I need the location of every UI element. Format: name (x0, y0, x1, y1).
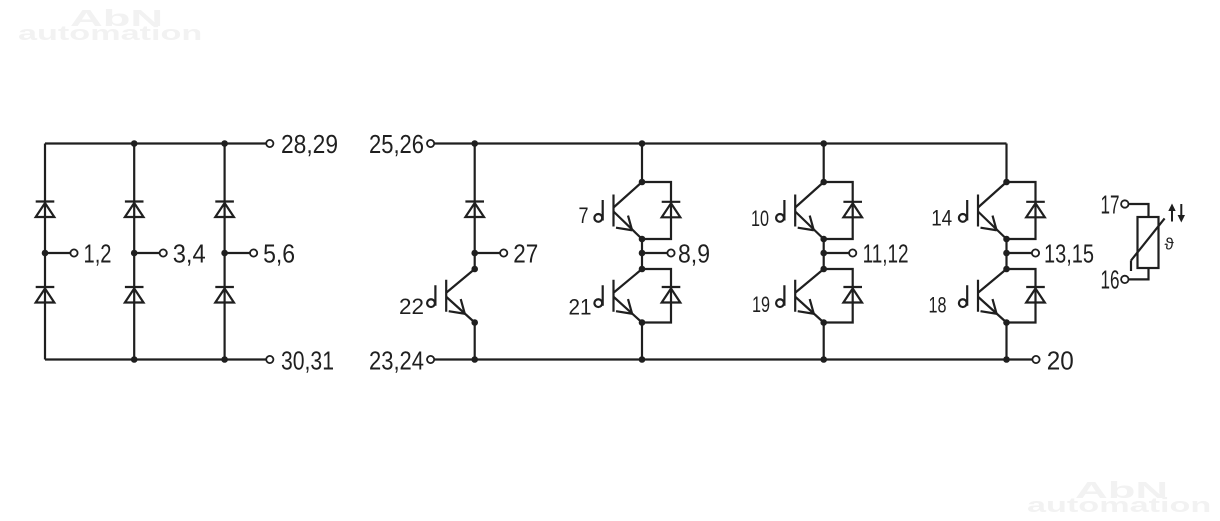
label terminal 3,4 (173, 239, 206, 269)
svg-text:17: 17 (1101, 190, 1120, 220)
node AC phase 5,6 (221, 250, 228, 257)
wire to terminal 3,4 (134, 252, 159, 254)
node rectifier bottom rail / leg 2 (131, 356, 138, 363)
node output 11,12 (820, 250, 827, 257)
IGBT 19 gate lead (776, 285, 784, 307)
wire rectifier DC+ top rail (45, 142, 266, 144)
wire inverter DC+ top rail (434, 142, 1007, 144)
svg-text:22: 22 (399, 294, 424, 319)
wire chopper lower leg (474, 323, 476, 360)
label terminal 25,26 (369, 129, 424, 159)
label IGBT 19 (752, 292, 770, 317)
label terminal 30,31 (281, 346, 334, 376)
wire half-bridge 3 lower leg (1005, 323, 1007, 360)
IGBT 7 collector lead (614, 182, 643, 208)
terminal 11,12 (849, 249, 856, 256)
node IGBT 21 emitter (639, 319, 646, 326)
terminal 8,9 (667, 249, 674, 256)
IGBT 19 gate bar (794, 280, 796, 312)
IGBT 22 gate bar (445, 280, 447, 312)
terminal 16 (1121, 276, 1128, 283)
thermistor variation diagonal (1131, 218, 1165, 271)
node IGBT 10 collector (820, 179, 827, 186)
IGBT 14 emitter lead with arrow (978, 212, 1007, 240)
node half-bridge 2 / bottom rail (820, 356, 827, 363)
svg-text:18: 18 (929, 293, 947, 318)
node IGBT 7 emitter (639, 236, 646, 243)
IGBT 10 emitter lead with arrow (795, 212, 824, 240)
terminal 20 (DC-) (1032, 356, 1039, 363)
IGBT 14 gate lead (959, 200, 967, 222)
watermark logo (top-left) (70, 5, 163, 32)
IGBT 19 emitter lead with arrow (795, 297, 824, 323)
svg-text:3,4: 3,4 (173, 239, 206, 269)
label IGBT 14 (931, 206, 952, 231)
watermark logo (bottom-right) (1075, 477, 1168, 504)
IGBT 21 collector lead (614, 269, 643, 293)
svg-text:27: 27 (513, 239, 538, 269)
node IGBT 19 emitter (820, 319, 827, 326)
wire rectifier leg 1 (44, 144, 46, 360)
node AC phase 3,4 (131, 250, 138, 257)
IGBT 18 gate bar (977, 280, 979, 312)
wire to terminal 13,15 (1007, 252, 1032, 254)
node AC phase 1,2 (42, 250, 49, 257)
svg-text:13,15: 13,15 (1044, 239, 1094, 269)
wire to terminal 1,2 (45, 252, 70, 254)
IGBT 22 gate lead (427, 285, 435, 307)
label IGBT 18 (929, 293, 947, 318)
freewheel diode of IGBT 14 (1007, 182, 1045, 239)
thermistor theta symbol (1165, 235, 1175, 254)
label terminal 20 (1047, 346, 1074, 376)
wire to terminal 11,12 (824, 252, 849, 254)
svg-text:28,29: 28,29 (281, 129, 338, 159)
wire rectifier leg 3 (224, 144, 226, 360)
svg-text:16: 16 (1101, 265, 1120, 295)
svg-text:23,24: 23,24 (369, 346, 424, 376)
svg-text:7: 7 (579, 203, 589, 228)
rectifier diode leg 1 lower (36, 287, 55, 303)
node chopper IGBT emitter (471, 319, 478, 326)
IGBT 10 gate lead (776, 200, 784, 222)
svg-text:10: 10 (751, 206, 769, 231)
IGBT 22 collector lead (446, 269, 475, 293)
node half-bridge 1 / top rail (639, 140, 646, 147)
node IGBT 18 collector (1003, 266, 1010, 273)
freewheel diode of IGBT 7 (642, 182, 680, 239)
freewheel diode of IGBT 19 (824, 269, 862, 323)
node rectifier top rail / leg 3 (221, 140, 228, 147)
IGBT 22 emitter lead with arrow (446, 297, 475, 323)
node half-bridge 3 / bottom rail (1003, 356, 1010, 363)
wire half-bridge 2 upper leg (823, 144, 825, 183)
node 27 (471, 250, 478, 257)
IGBT 21 emitter lead with arrow (614, 297, 643, 323)
IGBT 10 gate bar (794, 195, 796, 227)
label IGBT 22 (399, 294, 424, 319)
label terminal 28,29 (281, 129, 338, 159)
rectifier diode leg 2 lower (125, 287, 144, 303)
terminal 25,26 (DC+) (427, 140, 434, 147)
wire rectifier leg 2 (133, 144, 135, 360)
IGBT 10 collector lead (795, 182, 824, 208)
label terminal 5,6 (263, 239, 295, 269)
IGBT 14 collector lead (978, 182, 1007, 208)
wire to terminal 27 (475, 252, 500, 254)
freewheel diode of IGBT 18 (1007, 269, 1045, 323)
node rectifier bottom rail / leg 3 (221, 356, 228, 363)
terminal 5,6 (250, 249, 257, 256)
label terminal 11,12 (863, 239, 909, 269)
svg-text:ϑ: ϑ (1165, 235, 1175, 254)
label terminal 13,15 (1044, 239, 1094, 269)
freewheel diode of IGBT 21 (642, 269, 680, 323)
node IGBT 10 emitter (820, 236, 827, 243)
svg-text:20: 20 (1047, 346, 1074, 376)
node IGBT 19 collector (820, 266, 827, 273)
terminal 28,29 (DC+) (266, 140, 273, 147)
IGBT 14 gate bar (977, 195, 979, 227)
svg-text:19: 19 (752, 292, 770, 317)
terminal 3,4 (160, 249, 167, 256)
IGBT 7 gate bar (612, 195, 614, 227)
terminal 13,15 (1032, 249, 1039, 256)
IGBT 7 emitter lead with arrow (614, 212, 643, 240)
svg-text:5,6: 5,6 (263, 239, 295, 269)
IGBT 19 collector lead (795, 269, 824, 293)
terminal 1,2 (70, 249, 77, 256)
rectifier diode leg 3 lower (215, 287, 234, 303)
wire emitter 10 to output node (823, 239, 825, 269)
wire emitter 7 to output node (641, 239, 643, 269)
label IGBT 21 (569, 295, 592, 320)
wire half-bridge 2 lower leg (823, 323, 825, 360)
wire terminal 16 to thermistor (1129, 268, 1149, 279)
svg-text:25,26: 25,26 (369, 129, 424, 159)
node half-bridge 1 / bottom rail (639, 356, 646, 363)
node IGBT 14 emitter (1003, 236, 1010, 243)
wire to terminal 8,9 (642, 252, 667, 254)
wire emitter 14 to output node (1005, 239, 1007, 269)
rectifier diode leg 2 upper (125, 202, 144, 218)
thermistor NTC body (1138, 217, 1159, 268)
node output 8,9 (639, 250, 646, 257)
node chopper / top rail (471, 140, 478, 147)
svg-text:21: 21 (569, 295, 592, 320)
freewheel diode of IGBT 10 (824, 182, 862, 239)
node IGBT 7 collector (639, 179, 646, 186)
IGBT 7 gate lead (594, 200, 602, 222)
label terminal 16 (1101, 265, 1120, 295)
IGBT 18 collector lead (978, 269, 1007, 293)
label terminal 1,2 (84, 239, 112, 269)
wire inverter DC- bottom rail (434, 358, 1033, 360)
terminal 30,31 (DC-) (266, 356, 273, 363)
rectifier diode leg 1 upper (36, 202, 55, 218)
IGBT 18 emitter lead with arrow (978, 297, 1007, 323)
temperature arrows (1168, 204, 1185, 223)
label terminal 8,9 (678, 239, 710, 269)
wire half-bridge 1 upper leg (641, 144, 643, 183)
chopper diode (465, 202, 484, 218)
node output 13,15 (1003, 250, 1010, 257)
IGBT 21 gate bar (612, 280, 614, 312)
wire terminal 17 to thermistor (1128, 204, 1148, 217)
node rectifier top rail / leg 2 (131, 140, 138, 147)
node IGBT 14 collector (1003, 179, 1010, 186)
svg-text:8,9: 8,9 (678, 239, 710, 269)
IGBT 21 gate lead (594, 285, 602, 307)
svg-text:1,2: 1,2 (84, 239, 112, 269)
label IGBT 10 (751, 206, 769, 231)
wire half-bridge 1 lower leg (641, 323, 643, 360)
label terminal 17 (1101, 190, 1120, 220)
node IGBT 21 collector (639, 266, 646, 273)
svg-text:30,31: 30,31 (281, 346, 334, 376)
svg-text:14: 14 (931, 206, 952, 231)
wire chopper upper leg (474, 144, 476, 270)
terminal 17 (1121, 200, 1128, 207)
label terminal 27 (513, 239, 538, 269)
wire to terminal 5,6 (225, 252, 250, 254)
label IGBT 7 (579, 203, 589, 228)
wire half-bridge 3 upper leg (1005, 144, 1007, 183)
label terminal 23,24 (369, 346, 424, 376)
wire rectifier DC- bottom rail (45, 358, 266, 360)
node chopper IGBT collector (471, 266, 478, 273)
node chopper / bottom rail (471, 356, 478, 363)
terminal 23,24 (DC-) (427, 356, 434, 363)
svg-text:11,12: 11,12 (863, 239, 909, 269)
node half-bridge 2 / top rail (820, 140, 827, 147)
IGBT 18 gate lead (959, 285, 967, 307)
rectifier diode leg 3 upper (215, 202, 234, 218)
terminal 27 (500, 249, 507, 256)
node IGBT 18 emitter (1003, 319, 1010, 326)
